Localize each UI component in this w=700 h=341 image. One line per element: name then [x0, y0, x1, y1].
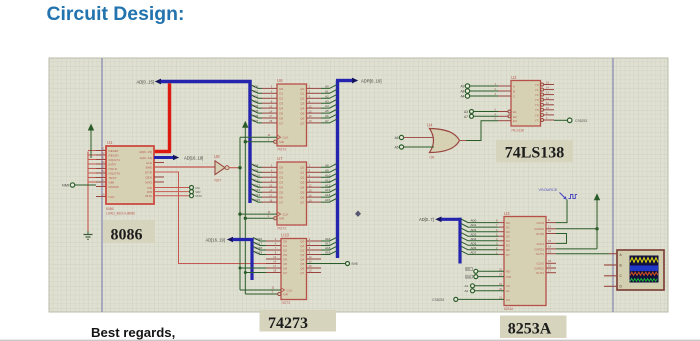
svg-text:RD: RD [148, 186, 153, 190]
ic U6 left pin stubs [262, 88, 277, 123]
svg-text:A3: A3 [325, 99, 329, 103]
wire U3 GATE0 to VCC rail [556, 228, 597, 230]
svg-text:A0: A0 [325, 85, 329, 89]
ic U6 pin number 1 (MR) [268, 137, 270, 141]
ic U10 left pin stubs [266, 241, 281, 273]
svg-text:OUT0: OUT0 [536, 232, 544, 236]
svg-text:OUT2: OUT2 [536, 271, 544, 275]
svg-text:GATE2: GATE2 [534, 266, 544, 270]
svg-text:D2: D2 [506, 230, 510, 234]
wire U10 output to BHE terminal [307, 263, 346, 265]
svg-text:AD1: AD1 [253, 89, 259, 93]
svg-text:AD4: AD4 [471, 237, 477, 241]
bus wire AD[0..7] horizontal [441, 218, 462, 221]
svg-text:A7: A7 [464, 115, 468, 119]
ic U7 left pin numbers [269, 164, 272, 203]
gate U4 OR body [430, 129, 460, 153]
svg-text:A4: A4 [325, 104, 329, 108]
svg-text:BHE: BHE [146, 165, 152, 169]
svg-text:RQ/GT1: RQ/GT1 [109, 158, 121, 162]
ic U10 inner pin labels D0-D7 / Q0-Q7 [283, 239, 304, 296]
ic U6 left net labels [253, 85, 259, 124]
bus terminal arrow AD[16..19] (lower) [227, 237, 233, 243]
wire VCC rail vertical [596, 200, 598, 249]
svg-text:AD1: AD1 [471, 223, 477, 227]
ic U1 file label [106, 212, 135, 216]
svg-text:U7: U7 [277, 156, 283, 161]
oscilloscope trace B (blue band) [630, 266, 658, 272]
svg-text:Q7: Q7 [300, 121, 304, 125]
svg-text:8253A: 8253A [504, 307, 514, 311]
ic U6 reference label [277, 78, 283, 83]
ic U6 left pin numbers [269, 85, 272, 124]
svg-text:RESET: RESET [109, 149, 119, 153]
svg-text:M/IO: M/IO [196, 194, 203, 198]
svg-text:CLK1: CLK1 [536, 242, 544, 246]
ic U3 8253A body [504, 217, 546, 306]
gate U8 NOT triangle [215, 161, 225, 175]
svg-text:A12: A12 [325, 183, 331, 187]
oscilloscope channel labels [620, 253, 623, 289]
ic U7 pin number 11 (CLK) [268, 210, 271, 214]
svg-text:A7: A7 [325, 119, 329, 123]
svg-text:8086: 8086 [106, 207, 114, 211]
bottom hairline [0, 340, 700, 341]
svg-text:8086: 8086 [111, 227, 143, 244]
ic U6 right net labels [325, 85, 329, 124]
svg-text:CS8253: CS8253 [575, 119, 587, 123]
svg-text:GATE1: GATE1 [534, 247, 544, 251]
svg-text:AD4: AD4 [253, 104, 259, 108]
wire U1 control WR [154, 191, 189, 193]
ic U3 left bus taps D0-D7 [461, 219, 499, 254]
svg-text:D4: D4 [279, 186, 283, 190]
svg-text:AD6: AD6 [253, 114, 259, 118]
ic U6 right bus taps [321, 85, 337, 123]
terminal A9 input [461, 84, 499, 89]
svg-text:U1: U1 [107, 140, 113, 145]
svg-text:NMI: NMI [109, 181, 115, 185]
svg-text:A8: A8 [325, 163, 329, 167]
svg-text:NOT: NOT [215, 179, 222, 183]
terminal U4 input B [395, 145, 434, 150]
wire U6 MR with bubble [245, 140, 277, 143]
svg-text:A13: A13 [325, 188, 331, 192]
ic U3 right pin stubs [546, 223, 556, 273]
svg-text:M/IO: M/IO [145, 180, 152, 184]
svg-text:Q1: Q1 [300, 92, 304, 96]
ic U3 left pin stubs D0-D7 [499, 223, 504, 255]
svg-text:AD12: AD12 [253, 183, 261, 187]
gate U8 output bubble [225, 166, 229, 170]
origin marker diamond [355, 211, 361, 217]
svg-text:Q2: Q2 [300, 97, 304, 101]
svg-text:A: A [513, 85, 515, 89]
svg-text:D3: D3 [283, 253, 287, 257]
wire U8 output to CLK rail [229, 167, 240, 169]
power arrow MR rail [242, 121, 248, 128]
svg-text:D6: D6 [279, 116, 283, 120]
ic U1 8086 body [106, 146, 154, 204]
wire CLK rail vertical [239, 137, 241, 290]
svg-text:D3: D3 [279, 102, 283, 106]
svg-text:Q0: Q0 [300, 87, 304, 91]
svg-text:A8: A8 [461, 90, 465, 94]
svg-text:CLK: CLK [283, 136, 289, 140]
ic U1 8086 reference label [107, 140, 113, 145]
ic U3 value label 8253A [504, 307, 514, 311]
svg-text:AD2: AD2 [253, 94, 259, 98]
svg-text:D0: D0 [283, 239, 287, 243]
svg-text:DEN: DEN [145, 175, 152, 179]
label box 74273 [260, 310, 337, 332]
svg-text:U3: U3 [504, 211, 510, 216]
ic U6 inner pin labels D0-D7 / Q0-Q7 [279, 87, 304, 144]
bus terminal arrow ADR[0..19] [352, 78, 358, 84]
svg-text:E1: E1 [513, 110, 517, 114]
svg-text:D0: D0 [279, 87, 283, 91]
svg-text:MR: MR [283, 292, 288, 296]
svg-text:HOLD: HOLD [109, 167, 118, 171]
svg-text:16: 16 [548, 264, 552, 268]
svg-text:Q5: Q5 [300, 191, 304, 195]
ic U2 inner pin labels [513, 83, 539, 123]
svg-text:Y7: Y7 [535, 118, 539, 122]
ic U6 left bus taps [251, 85, 262, 123]
svg-text:WR: WR [506, 275, 512, 279]
svg-text:U10: U10 [281, 233, 290, 238]
svg-text:AD[0..7]: AD[0..7] [419, 217, 434, 222]
terminal RD control [466, 267, 505, 274]
svg-text:Q6: Q6 [300, 116, 304, 120]
terminal A8 input [461, 89, 499, 94]
net label AD[16..19] (lower) [206, 238, 225, 243]
wire U1 to U10 data (down and right) [154, 172, 281, 264]
svg-text:D7: D7 [283, 271, 287, 275]
ic U10 74273 body [281, 239, 307, 300]
ic U7 right net labels [325, 163, 331, 202]
svg-text:A2: A2 [465, 289, 469, 293]
svg-text:A18: A18 [325, 246, 331, 250]
wire red comb joining U1 left pins [88, 151, 96, 232]
ic U2 74LS138 body [511, 81, 541, 127]
svg-text:AD18: AD18 [255, 246, 263, 250]
svg-text:A15: A15 [325, 198, 331, 202]
label box 74LS138 [496, 140, 573, 162]
svg-text:RQ/GT0: RQ/GT0 [109, 172, 121, 176]
svg-text:AD[0..15]: AD[0..15] [137, 80, 154, 85]
svg-text:10: 10 [548, 229, 552, 233]
svg-text:A1: A1 [325, 89, 329, 93]
svg-text:AD0: AD0 [253, 85, 259, 89]
svg-text:WR: WR [466, 275, 472, 279]
ic U6 clock triangle mark [277, 135, 281, 139]
svg-text:AD19: AD19 [255, 251, 263, 255]
svg-text:AD16: AD16 [255, 237, 263, 241]
bus wire AD[0..7] vertical [458, 218, 461, 264]
wire U3 CLK0 to clock source [556, 200, 567, 223]
ic U7 reference label [277, 156, 283, 161]
svg-text:AD15: AD15 [253, 198, 261, 202]
ic U2 value label 74LS138 [511, 129, 524, 133]
ic U3 inner labels right [534, 221, 544, 275]
svg-text:D1: D1 [506, 226, 510, 230]
sheet border line right [612, 58, 614, 312]
svg-text:AD13: AD13 [253, 188, 261, 192]
terminal WR control [466, 275, 505, 280]
oscilloscope trace A (yellow) [630, 258, 658, 263]
svg-text:A19: A19 [325, 251, 331, 255]
svg-text:D5: D5 [279, 112, 283, 116]
svg-text:A6: A6 [395, 136, 399, 140]
svg-text:U4: U4 [427, 123, 433, 128]
svg-text:Y1: Y1 [535, 88, 539, 92]
ic U6 74273 body [277, 84, 307, 146]
wire U3 GATE1 to VCC rail [556, 248, 597, 250]
ic U7 right pin stubs [307, 167, 322, 202]
svg-text:D6: D6 [506, 248, 510, 252]
clock source VSOURCE symbol [539, 188, 578, 200]
svg-text:8253A: 8253A [508, 321, 552, 338]
svg-text:74273: 74273 [277, 227, 286, 231]
closing text Best regards [91, 325, 175, 340]
wire U7 CLK [240, 213, 277, 215]
ic U10 left net labels [255, 237, 263, 255]
bus wire AD[16..19] horizontal [233, 238, 254, 241]
svg-text:AD0: AD0 [471, 219, 477, 223]
ic U7 left net labels [253, 163, 261, 202]
svg-text:E3: E3 [513, 119, 517, 123]
svg-text:Q3: Q3 [300, 102, 304, 106]
svg-text:AD5: AD5 [471, 241, 477, 245]
svg-text:AD7: AD7 [471, 251, 477, 255]
svg-text:Best regards,: Best regards, [91, 325, 175, 340]
svg-text:MR: MR [279, 140, 284, 144]
svg-text:13: 13 [548, 249, 552, 253]
oscilloscope screen [630, 256, 659, 283]
svg-text:AD9: AD9 [253, 168, 259, 172]
svg-text:CLK: CLK [287, 288, 293, 292]
oscilloscope input stub B [604, 264, 617, 266]
svg-text:A9: A9 [461, 85, 465, 89]
svg-text:Y5: Y5 [535, 108, 539, 112]
wire red AD bus to 8086 (vertical) [168, 83, 171, 151]
ic U7 right pin numbers [309, 164, 312, 203]
svg-text:11: 11 [548, 224, 551, 228]
svg-text:D6: D6 [279, 196, 283, 200]
gate U8 type label NOT [215, 179, 222, 183]
svg-text:U8: U8 [214, 154, 220, 159]
ic U10 reference label [281, 233, 290, 238]
ic U2 left pin numbers [495, 82, 497, 121]
junction CLK rail at U7 [238, 212, 241, 215]
ic U10 right bus taps [321, 237, 337, 254]
svg-text:INTA: INTA [145, 194, 153, 198]
ic U7 value label 74273 [277, 227, 286, 231]
terminal RD [190, 186, 201, 191]
ic U1 left pin numbers [102, 148, 105, 197]
ic U1 right pin name labels [139, 150, 153, 198]
wire ALE from U1 to U8 input [154, 166, 215, 168]
terminal U4 input A [395, 135, 434, 140]
wires U10 lower data pins to rails [239, 267, 267, 275]
svg-text:D1: D1 [279, 92, 283, 96]
svg-text:AD10: AD10 [253, 173, 261, 177]
net label ADR[0..19] [361, 79, 381, 84]
svg-text:ALE: ALE [146, 161, 152, 165]
svg-text:A14: A14 [325, 193, 331, 197]
svg-text:14: 14 [548, 245, 552, 249]
ic U7 pin number 1 (MR) [268, 214, 270, 218]
svg-text:D3: D3 [279, 181, 283, 185]
wire U3 OUT0 to CLK1 loop [556, 234, 567, 244]
svg-text:Q6: Q6 [300, 266, 304, 270]
svg-text:MN/MX: MN/MX [109, 185, 119, 189]
svg-text:A6: A6 [325, 114, 329, 118]
svg-text:INTR: INTR [109, 163, 117, 167]
terminal A7 input [464, 114, 498, 119]
svg-text:DT/R: DT/R [145, 170, 153, 174]
oscilloscope trace C (orange) [630, 272, 658, 275]
svg-text:D0: D0 [506, 221, 510, 225]
terminal CS8253 input [432, 297, 504, 302]
ic U2 right pin numbers [546, 81, 549, 121]
ic U1 left pin name labels [109, 149, 121, 199]
svg-text:AD[16..19]: AD[16..19] [184, 155, 203, 160]
terminal A4 input [461, 94, 499, 99]
svg-text:AD[16..19]: AD[16..19] [206, 238, 225, 243]
svg-text:D6: D6 [283, 266, 287, 270]
svg-text:D7: D7 [279, 121, 283, 125]
svg-text:CS: CS [506, 298, 510, 302]
oscilloscope input stub D [604, 285, 617, 287]
wire U3 OUT1 to oscilloscope A [556, 253, 609, 255]
sheet border line left [101, 58, 103, 312]
ic U2 right pin stubs with bubbles Y0-Y7 [541, 83, 554, 122]
svg-text:CS8253: CS8253 [432, 298, 444, 302]
svg-text:D1: D1 [283, 244, 287, 248]
bus wire AD[0..15] horizontal [161, 80, 252, 83]
ic U2 left pin stubs A B C [498, 86, 511, 96]
ic U10 pin number 11 (CLK) [272, 286, 275, 290]
svg-text:A9: A9 [325, 168, 329, 172]
svg-text:AD[0..15]: AD[0..15] [139, 150, 152, 154]
svg-text:D4: D4 [279, 107, 283, 111]
oscilloscope input stub A [609, 253, 617, 255]
svg-text:74LS138: 74LS138 [511, 129, 524, 133]
terminal BHE [346, 262, 359, 267]
bus terminal arrow AD[0..7] [435, 217, 441, 223]
svg-text:CLK0: CLK0 [536, 221, 544, 225]
ic U6 right pin stubs [307, 88, 322, 123]
ic U3 left pin numbers [496, 219, 498, 255]
junction GATE0 / VCC rail [595, 227, 598, 230]
net label AD[16..19] (upper) [184, 155, 203, 160]
svg-text:A5: A5 [325, 109, 329, 113]
svg-text:AD7: AD7 [253, 119, 259, 123]
svg-text:A2: A2 [325, 94, 329, 98]
svg-text:Q5: Q5 [300, 112, 304, 116]
ic U6 right pin numbers [309, 85, 312, 124]
svg-text:AD8: AD8 [253, 163, 259, 167]
svg-text:Y3: Y3 [535, 98, 539, 102]
bus stub A16..19 from U1 [154, 156, 173, 159]
svg-text:B: B [513, 90, 515, 94]
svg-text:TEST: TEST [109, 176, 117, 180]
ic U2 reference label [511, 75, 517, 80]
terminal A3 input [464, 110, 498, 115]
ic U10 left pin numbers [273, 237, 276, 273]
ic U1 value label 8086 [106, 207, 114, 211]
wire MR rail vertical [244, 128, 246, 294]
ic U3 reference label [504, 211, 510, 216]
svg-text:Y4: Y4 [535, 103, 539, 107]
svg-text:CLK2: CLK2 [536, 262, 544, 266]
wire U4 output [460, 140, 482, 142]
ic U2 enable pin stubs with bubbles E1 E2 [498, 110, 511, 118]
svg-text:Q0: Q0 [300, 239, 304, 243]
svg-text:A3: A3 [464, 110, 468, 114]
oscilloscope trace D (green) [630, 279, 657, 282]
svg-text:A0: A0 [506, 284, 510, 288]
svg-text:GATE0: GATE0 [534, 227, 544, 231]
svg-text:D2: D2 [283, 248, 287, 252]
svg-text:74273: 74273 [268, 315, 308, 332]
ic U3 right pin numbers [548, 218, 552, 272]
svg-text:B: B [620, 264, 622, 268]
svg-text:A17: A17 [325, 242, 331, 246]
wire OR gate output to U2 E3 [481, 121, 498, 141]
svg-text:AD5: AD5 [253, 109, 259, 113]
svg-text:A16: A16 [325, 237, 331, 241]
svg-text:D5: D5 [506, 244, 510, 248]
svg-text:Q4: Q4 [300, 186, 304, 190]
ic U10 right pin stubs [307, 241, 322, 273]
ic U10 clock triangle mark [281, 288, 285, 292]
svg-text:D3: D3 [506, 235, 510, 239]
terminal WR [190, 190, 202, 195]
svg-text:Q2: Q2 [300, 176, 304, 180]
svg-text:11: 11 [272, 286, 275, 290]
svg-text:READY: READY [109, 154, 120, 158]
oscilloscope input stub C [604, 275, 617, 277]
svg-text:Q3: Q3 [300, 253, 304, 257]
svg-text:CLK: CLK [283, 213, 289, 217]
svg-text:ADR[0..19]: ADR[0..19] [361, 79, 381, 84]
ground symbol [84, 231, 93, 239]
svg-text:Y0: Y0 [535, 83, 539, 87]
svg-text:D2: D2 [279, 97, 283, 101]
svg-text:WR: WR [147, 190, 153, 194]
svg-text:Y6: Y6 [535, 113, 539, 117]
svg-text:74273: 74273 [277, 148, 286, 152]
ic U7 left pin stubs [262, 167, 277, 202]
oscilloscope body [617, 250, 664, 290]
wire U1 control RD [154, 187, 189, 189]
gate U4 reference label [427, 123, 433, 128]
svg-text:NMI: NMI [62, 184, 69, 188]
svg-text:Y2: Y2 [535, 93, 539, 97]
bus wire AD[16..19] vertical [250, 238, 253, 280]
bus terminal arrow AD[16..19] (upper) [173, 155, 179, 161]
label box 8086 [103, 221, 155, 244]
svg-text:Circuit Design:: Circuit Design: [47, 3, 185, 25]
ic U10 right net labels [325, 237, 331, 255]
terminal A2 address [465, 289, 505, 293]
wire red AD bus to 8086 (horizontal into U1) [154, 150, 171, 153]
ic U6 pin number 11 (CLK) [268, 133, 271, 137]
gate U8 reference label [214, 154, 220, 159]
